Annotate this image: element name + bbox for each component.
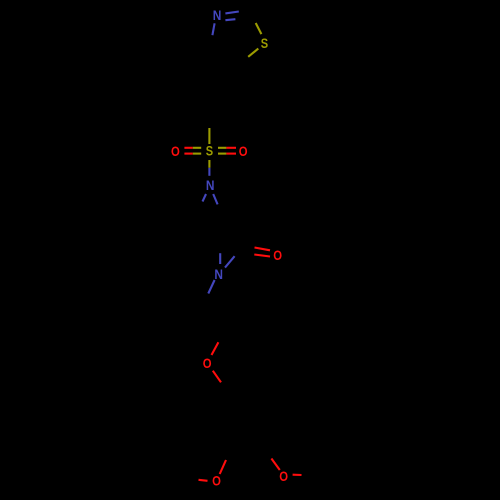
- svg-text:N: N: [214, 266, 223, 282]
- wire C2-S3 half-bond (S side, olive): [256, 23, 262, 34]
- wire S=O right double bond upper line: olive S-half then red O-half: [218, 147, 236, 149]
- svg-text:O: O: [279, 468, 288, 484]
- benzothiazole/thiazole ring N1 label: [213, 7, 222, 23]
- methoxy right O label: [279, 468, 288, 484]
- wire azetidine N right half-bond (blue): [213, 194, 217, 204]
- wire aryl C-O half-bond to methoxy right (red): [271, 459, 279, 471]
- wire lactam N chain half-bond down-left (blue): [208, 280, 214, 294]
- wire C=O carbonyl double bond lower red half: [254, 255, 270, 257]
- wire S3-C3a half-bond (S side, olive): [248, 49, 258, 57]
- ether O label: [203, 355, 212, 371]
- svg-text:O: O: [171, 143, 180, 159]
- svg-text:S: S: [261, 35, 268, 51]
- svg-text:N: N: [213, 7, 222, 23]
- wire C=O carbonyl double bond upper red half: [255, 248, 271, 251]
- wire C-S(sulfonyl) half-bond (S side, olive, vertical): [208, 128, 210, 144]
- svg-text:N: N: [206, 177, 215, 193]
- wire methoxy left O-CH3 half-bond (red, horizontal): [199, 480, 208, 481]
- wire S-N half-bond olive part (vertical): [208, 160, 210, 168]
- svg-text:S: S: [206, 143, 213, 159]
- sulfonyl S label: [206, 143, 213, 159]
- svg-text:O: O: [203, 355, 212, 371]
- wire S=O right double bond lower line: olive S-half then red O-half: [218, 153, 236, 155]
- wire N1-C7a half-bond (N side, blue): [212, 23, 214, 35]
- wire S=O left double bond upper line: red O-half then olive S-half: [184, 147, 201, 149]
- methoxy left O label: [212, 473, 221, 489]
- wire N1=C2 double bond upper half (N side, blue): [225, 12, 238, 14]
- azetidine N label: [206, 177, 215, 193]
- wire N1=C2 double bond lower half (N side, blue): [225, 19, 235, 20]
- thiazole S3 label: [261, 35, 268, 51]
- wire methoxy right O-CH3 half-bond (red, horizontal): [293, 474, 302, 476]
- svg-text:O: O: [212, 473, 221, 489]
- wire lactam N upward half-bond (blue, vertical): [219, 253, 221, 264]
- wire S-N half-bond blue part (vertical): [208, 168, 210, 176]
- wire azetidine N left half-bond (blue): [203, 194, 207, 202]
- wire lactam N to carbonyl C half-bond (blue): [225, 256, 235, 267]
- lactam N label: [214, 266, 223, 282]
- wire O-C1(aryl) half-bond (red, lower): [213, 371, 221, 383]
- sulfonyl O left label: [171, 143, 180, 159]
- sulfonyl O right label: [239, 143, 248, 159]
- wire aryl C-O half-bond to methoxy left (red): [220, 460, 226, 474]
- svg-text:O: O: [273, 247, 282, 263]
- wire S=O left double bond lower line: red O-half then olive S-half: [184, 153, 201, 155]
- carbonyl O label: [273, 247, 282, 263]
- wire CH2-O ether half-bond (red, upper): [212, 342, 219, 355]
- svg-text:O: O: [239, 143, 248, 159]
